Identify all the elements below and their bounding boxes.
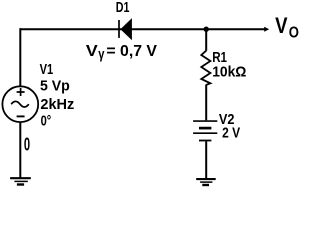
svg-text:0°: 0° bbox=[41, 113, 52, 129]
svg-text:= 0,7 V: = 0,7 V bbox=[106, 43, 157, 60]
wire below V1 bbox=[19, 122, 21, 178]
battery V2 plate short thick bbox=[199, 127, 211, 130]
wire node to resistor bbox=[205, 29, 207, 51]
source V1 circle bbox=[2, 86, 38, 122]
diode D1 cathode bar bbox=[118, 20, 120, 38]
minus sign bbox=[17, 115, 25, 117]
wire battery to ground bbox=[205, 141, 207, 178]
battery V2 plate long lower bbox=[193, 132, 217, 134]
svg-text:O: O bbox=[289, 25, 299, 42]
sine wave bbox=[11, 101, 29, 107]
svg-text:10kΩ: 10kΩ bbox=[212, 64, 246, 81]
svg-text:V: V bbox=[275, 13, 287, 38]
wire top horizontal bbox=[20, 28, 266, 30]
svg-text:D1: D1 bbox=[116, 0, 130, 16]
svg-text:V: V bbox=[86, 43, 98, 60]
battery V2 plate short bottom bbox=[199, 140, 211, 142]
svg-text:2kHz: 2kHz bbox=[40, 96, 74, 113]
node junction dot bbox=[204, 27, 209, 32]
ground right bbox=[196, 179, 216, 185]
plus sign bbox=[17, 88, 25, 96]
battery V2 plate long top bbox=[193, 120, 217, 122]
wire left vertical bbox=[19, 28, 21, 86]
svg-text:2 V: 2 V bbox=[222, 125, 240, 141]
svg-text:5 Vp: 5 Vp bbox=[40, 79, 70, 95]
wire resistor to battery bbox=[205, 85, 207, 121]
resistor R1 zigzag bbox=[201, 51, 210, 85]
diode D1 triangle bbox=[120, 18, 131, 40]
svg-text:γ: γ bbox=[98, 45, 104, 61]
ground left bbox=[10, 178, 31, 184]
output arrow head bbox=[264, 27, 269, 32]
svg-text:0: 0 bbox=[24, 135, 30, 155]
svg-text:V1: V1 bbox=[40, 62, 54, 78]
